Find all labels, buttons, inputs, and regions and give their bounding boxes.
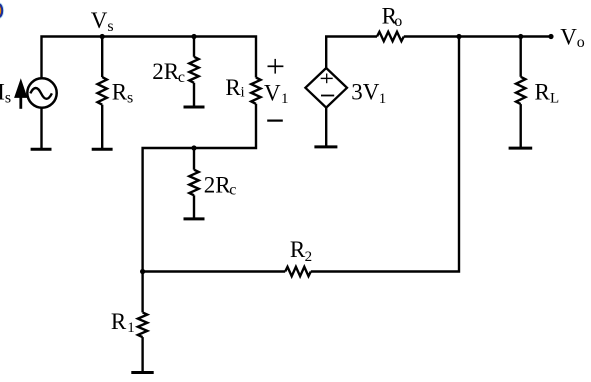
svg-text:2R: 2R	[152, 59, 180, 84]
ground G4 (2Rc lower)	[184, 217, 205, 220]
wire 2Rc2 bottom	[193, 195, 195, 219]
svg-text:i: i	[241, 85, 245, 101]
svg-text:R: R	[290, 237, 306, 262]
node 2Rc1 top dot	[191, 34, 196, 39]
svg-text:R: R	[535, 80, 551, 105]
wire Rs top	[101, 37, 103, 78]
resistor Ro	[377, 32, 404, 41]
wire top-left rail Vs node to Ri (with source drop and Ri drop)	[42, 37, 257, 79]
wire source bottom	[40, 108, 42, 150]
minus sign inside diamond	[321, 95, 334, 97]
label Vs	[91, 8, 114, 35]
node R1/R2 junction dot	[140, 269, 145, 274]
dependent source 3V1 diamond	[305, 68, 347, 108]
minus sign V1 polarity	[267, 119, 283, 121]
resistor 2Rc (upper)	[189, 57, 198, 83]
wire R2 row right + right vertical	[311, 37, 459, 272]
label R1	[111, 309, 135, 336]
label RL	[535, 80, 560, 107]
node Vs dot	[100, 34, 105, 39]
resistor Ri	[251, 78, 260, 104]
resistor RL	[516, 77, 525, 104]
svg-text:R: R	[112, 80, 128, 105]
label 3V1	[351, 80, 386, 107]
wire R2 row left	[143, 270, 286, 272]
wire R1 top	[141, 272, 143, 313]
node Vo terminal dot	[548, 34, 553, 39]
svg-text:o: o	[577, 34, 585, 51]
svg-text:3V: 3V	[351, 80, 380, 105]
ground G3 (2Rc upper)	[184, 106, 205, 109]
wire top-right rail right	[404, 35, 551, 37]
current source sine	[30, 88, 52, 99]
resistor Rs	[97, 77, 106, 105]
wire RL bottom	[520, 104, 522, 148]
svg-text:o: o	[394, 13, 402, 30]
svg-text:s: s	[127, 90, 133, 107]
label R2	[290, 237, 312, 265]
svg-text:c: c	[178, 69, 185, 86]
label Is	[0, 80, 11, 107]
node 2Rc2 top dot	[191, 145, 196, 150]
wire 2Rc2 top	[193, 148, 195, 170]
svg-text:V: V	[264, 80, 281, 105]
label Ro	[382, 4, 403, 31]
node Ro output dot	[456, 34, 461, 39]
ground G5 (R1)	[131, 371, 153, 374]
wire RL top	[520, 37, 522, 77]
wire top-right rail left + diamond drop	[326, 37, 377, 69]
ground G1 (source branch)	[31, 148, 52, 151]
label Vo	[560, 24, 585, 51]
label Rs	[112, 80, 133, 107]
resistor R1	[138, 312, 147, 337]
svg-text:1: 1	[281, 91, 289, 107]
wire 2Rc1 bottom	[193, 83, 195, 107]
svg-text:s: s	[107, 18, 113, 35]
svg-text:1: 1	[127, 320, 135, 336]
resistor R2	[285, 267, 311, 276]
svg-text:2: 2	[305, 249, 313, 265]
svg-text:L: L	[550, 90, 559, 106]
ground G7 (RL)	[509, 147, 533, 150]
svg-text:2R: 2R	[204, 172, 232, 197]
svg-text:R: R	[225, 75, 241, 100]
svg-text:V: V	[560, 24, 577, 49]
svg-text:c: c	[229, 182, 236, 199]
svg-text:s: s	[5, 89, 11, 106]
resistor 2Rc (lower)	[189, 170, 198, 196]
label Ri	[225, 75, 244, 101]
svg-text:V: V	[91, 8, 108, 33]
node RL top dot	[518, 34, 523, 39]
wire Rs bottom	[101, 105, 103, 150]
wire 2Rc1 top	[193, 37, 195, 57]
current source Is circle	[27, 78, 56, 107]
wire R1 bottom	[141, 337, 143, 372]
wire diamond bottom	[325, 108, 327, 147]
plus sign V1 polarity	[268, 59, 284, 74]
svg-text:1: 1	[379, 91, 387, 107]
svg-text:R: R	[111, 309, 127, 334]
label V1	[264, 80, 289, 106]
wire Ri bottom + mid horizontal + left vertical down	[143, 104, 256, 272]
ground G2 (Rs)	[92, 148, 113, 151]
ground G6 (3V1)	[314, 145, 337, 148]
label 2Rc upper	[152, 59, 185, 86]
current source arrow Is	[14, 78, 27, 109]
plus sign inside diamond	[321, 74, 333, 84]
label 2Rc lower	[204, 172, 237, 198]
